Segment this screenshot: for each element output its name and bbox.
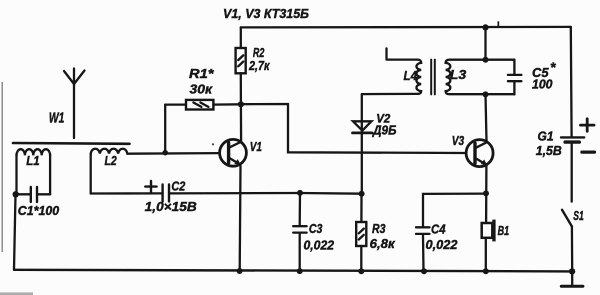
transformer core [431,60,435,95]
node diode/R3 junction [359,191,365,197]
transistor V1 [220,139,262,166]
wire top supply rail [241,26,571,29]
svg-text:1,5В: 1,5В [536,144,562,158]
node rail B1 [483,268,489,274]
svg-text:W1: W1 [49,110,65,127]
svg-text:R3: R3 [372,221,386,236]
wire V1 emitter down to bottom rail [239,166,242,271]
wire L2 left end down [90,154,92,194]
wire L2 to V1 base [127,152,220,155]
svg-text:B1: B1 [498,223,510,238]
node rail V1 emitter [237,268,243,274]
svg-text:6,8к: 6,8к [370,237,396,251]
wire V3 emitter down [485,165,488,223]
resistor R3 [356,194,395,272]
svg-text:V1, V3 КТ315Б: V1, V3 КТ315Б [223,6,309,21]
node V1 collector junction [238,101,244,107]
svg-text:L2: L2 [105,153,118,168]
capacitor C2 [145,178,197,214]
battery G1 [536,27,595,202]
svg-text:C4: C4 [431,222,446,237]
svg-text:C2: C2 [171,178,186,193]
switch S1 [562,208,584,272]
wire bottom rail [14,270,572,272]
wire L4 bottom / diode branch [361,95,363,194]
wire C2 to AF rail [170,192,300,195]
svg-text:C3: C3 [309,221,323,236]
wire top rail to L3 [484,27,486,59]
earphone B1 [482,220,509,272]
node bottom right junction [569,268,575,274]
resistor R1 [165,66,241,110]
svg-text:0,022: 0,022 [426,238,458,252]
svg-text:1,0×15В: 1,0×15В [145,199,197,214]
transistor V3 [452,133,493,167]
svg-text:2,7к: 2,7к [248,58,270,73]
inductor L3 [446,60,515,94]
node C3 top junction [297,190,303,196]
wire V3 collector up to L3 [486,94,487,141]
svg-text:100: 100 [532,77,553,91]
pin 1 tick [498,21,500,27]
svg-text:L4: L4 [404,68,418,83]
node L3 bottom junction [483,91,489,97]
svg-text:V3: V3 [452,133,465,148]
antenna W1 [49,69,85,139]
wire L2 bottom to C2 [91,192,162,194]
node L3 top junction [483,57,489,63]
svg-text:L3: L3 [450,67,467,82]
svg-text:R1*: R1* [189,66,215,81]
node rail C3 [297,268,303,274]
wire AF rail to diode node [300,192,362,195]
svg-text:C1*100: C1*100 [18,204,59,218]
capacitor C5 [508,59,556,94]
node rail R3 [358,268,364,274]
svg-text:Д9Б: Д9Б [372,124,397,138]
inductor L2 [91,149,128,168]
svg-text:0,022: 0,022 [304,239,335,253]
wire emitter node to C4 [423,194,486,227]
node V3 emitter junction [483,190,489,196]
resistor R2 [236,27,271,104]
wire collector loop to V3 base [241,104,466,153]
svg-text:*: * [550,59,556,75]
svg-text:30к: 30к [190,82,214,97]
capacitor C4 [416,222,458,272]
node R1/base junction [162,150,168,156]
inductor L1 [17,149,51,194]
svg-text:L1: L1 [26,153,39,168]
svg-text:S1: S1 [573,208,584,223]
inductor L4 [362,48,421,94]
capacitor C3 [293,193,334,271]
wire R1 left leg down to base [164,105,166,153]
node rail C4 [421,268,427,274]
node top rail junction [482,24,488,30]
capacitor C1 [15,187,59,218]
node L1/C1 junction [13,191,19,197]
svg-text:V1: V1 [250,139,262,154]
wire L1 tank to bottom rail [14,194,16,269]
wire V1 collector up [240,104,243,141]
ground [561,271,583,286]
ferrite rod [13,142,130,145]
diode V2 [353,111,397,137]
svg-text:G1: G1 [538,128,554,143]
